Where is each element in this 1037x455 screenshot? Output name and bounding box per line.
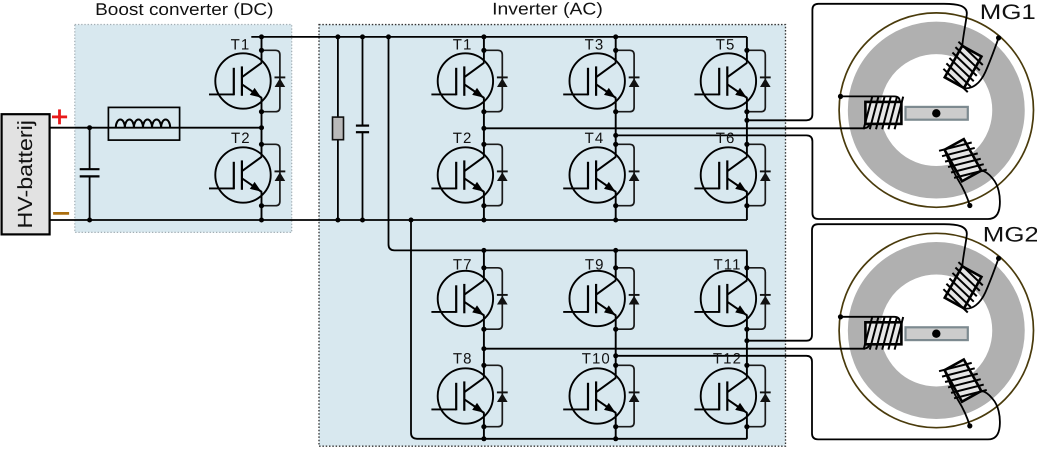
motor-generator MG2: [838, 233, 1034, 428]
svg-text:HV-batterij: HV-batterij: [14, 120, 37, 229]
transistor T2 (boost IGBT): [209, 142, 285, 209]
junction positive rail at T9 leg: [613, 248, 618, 253]
inductor L1: [108, 107, 179, 140]
svg-text:T1: T1: [453, 37, 473, 54]
junction DC- bus at C2: [360, 218, 365, 223]
wire T1 emitter to T2 collector (phase node U1): [483, 112, 485, 145]
junction phase W1 tap: [744, 118, 749, 123]
junction DC- bus at R1: [335, 218, 340, 223]
wire T6 emitter to DC- bus: [746, 206, 748, 220]
resistor R1 DC-link: [333, 117, 344, 140]
svg-text:T9: T9: [585, 257, 605, 274]
transistor T1 (boost IGBT): [209, 48, 285, 115]
junction phase V1 tap: [613, 133, 618, 138]
motor-generator MG1: [838, 13, 1034, 208]
svg-text:T1: T1: [231, 37, 251, 54]
junction DC- bus at boost T2 leg: [259, 218, 264, 223]
battery negative terminal -: [53, 212, 69, 215]
junction phase V2 tap: [613, 353, 618, 358]
svg-text:T2: T2: [453, 130, 473, 147]
junction DC+ bus at T3 leg: [613, 34, 618, 39]
inverter enclosure box: [319, 25, 786, 447]
svg-text:T11: T11: [714, 257, 742, 274]
transistor T6 (inverter IGBT): [694, 142, 770, 209]
junction phase W2 tap: [744, 338, 749, 343]
transistor T5 (inverter IGBT): [694, 48, 770, 115]
wire T2 emitter to DC- bus: [483, 206, 485, 220]
junction DC+ bus at T1 leg: [481, 34, 486, 39]
capacitor C2 DC-link: [356, 126, 369, 133]
transistor T9 (inverter IGBT): [563, 265, 639, 332]
wire T1 collector to DC+ bus: [483, 37, 485, 50]
svg-text:MG1: MG1: [980, 1, 1036, 24]
wire battery positive to inductor to boost midpoint node: [50, 127, 262, 129]
wire boost T1 collector to DC+ bus: [261, 37, 263, 50]
wire boosted DC+ bus T1 leg to T5 leg: [251, 36, 747, 38]
wire T4 emitter to DC- bus: [615, 206, 617, 220]
junction phase U1 tap: [481, 126, 486, 131]
transistor T4 (inverter IGBT): [563, 142, 639, 209]
junction phase U2 tap: [481, 346, 486, 351]
wire T10 emitter to negative rail: [615, 427, 617, 439]
wire T11 collector to positive rail: [746, 250, 748, 267]
svg-text:T6: T6: [716, 130, 736, 147]
wire T7 emitter to T8 collector (phase node U2): [483, 329, 485, 365]
wire boost T1 emitter to T2 collector (midpoint node): [261, 112, 263, 145]
junction DC- bus at T2 leg: [481, 218, 486, 223]
junction DC+ bus at R1: [335, 34, 340, 39]
wire phase V1 node T3/T4 to MG1 lower coil: [616, 135, 1000, 219]
transistor T3 (inverter IGBT): [563, 48, 639, 115]
wire boost T2 emitter to DC- bus: [261, 206, 263, 220]
wire capacitor C1 bottom lead: [89, 176, 91, 220]
wire capacitor C2 bottom lead: [362, 132, 364, 220]
svg-text:T8: T8: [453, 351, 473, 368]
junction boost midpoint node: [259, 125, 264, 130]
wire T9 collector to positive rail: [615, 250, 617, 267]
wire DC- feed to lower bridge negative rail: [411, 220, 747, 439]
wire T3 collector to DC+ bus: [615, 37, 617, 50]
wire T12 emitter to negative rail: [746, 427, 748, 439]
junction DC+ bus at lower-bridge feed: [386, 34, 391, 39]
wire capacitor C2 top lead: [362, 37, 364, 126]
wire capacitor C1 top lead: [89, 128, 91, 170]
svg-text:Boost converter (DC): Boost converter (DC): [95, 0, 273, 19]
transistor T1 (inverter IGBT): [431, 48, 507, 115]
junction DC- bus at T4 leg: [613, 218, 618, 223]
wire negative bus battery to T6 leg: [50, 219, 747, 221]
junction negative rail at T10 leg: [613, 436, 618, 441]
wire T5 emitter to T6 collector (phase node W1): [746, 112, 748, 145]
svg-text:T3: T3: [585, 37, 605, 54]
wire phase U1 node T1/T2 to MG1 left coil: [484, 123, 870, 128]
transistor T2 (inverter IGBT): [431, 142, 507, 209]
wire T5 collector to DC+ bus: [746, 37, 748, 50]
wire resistor R1 leads DC+ bus to DC- bus: [337, 37, 339, 220]
capacitor C1: [80, 169, 100, 176]
svg-text:T2: T2: [231, 130, 251, 147]
wire T7 collector to positive rail: [483, 250, 485, 267]
svg-text:T10: T10: [582, 351, 611, 368]
junction DC+ bus at boost T1 leg: [259, 34, 264, 39]
boost converter enclosure box: [75, 25, 292, 233]
junction positive rail at T7 leg: [481, 248, 486, 253]
wire phase U2 node T7/T8 to MG2 left coil: [484, 343, 870, 348]
wire DC+ feed to lower bridge positive rail: [389, 37, 747, 251]
wire phase V2 node T9/T10 to MG2 lower coil: [616, 356, 1000, 440]
wire T9 emitter to T10 collector (phase node V2): [615, 329, 617, 365]
svg-text:T4: T4: [585, 130, 605, 147]
wire T8 emitter to negative rail: [483, 427, 485, 439]
battery BT1 HV-batterij: [2, 114, 50, 234]
svg-text:MG2: MG2: [983, 224, 1037, 247]
wire T3 emitter to T4 collector (phase node V1): [615, 112, 617, 145]
junction DC+ bus at C2: [360, 34, 365, 39]
transistor T10 (inverter IGBT): [563, 363, 639, 430]
wire T11 emitter to T12 collector (phase node W2): [746, 329, 748, 365]
junction battery positive at C1: [87, 125, 92, 130]
svg-text:T7: T7: [453, 257, 473, 274]
junction DC- bus at lower-bridge feed: [409, 218, 414, 223]
wire phase W1 node T5/T6 to MG1 upper coil: [747, 4, 967, 121]
transistor T11 (inverter IGBT): [694, 265, 770, 332]
svg-text:T12: T12: [713, 351, 742, 368]
transistor T12 (inverter IGBT): [694, 363, 770, 430]
transistor T8 (inverter IGBT): [431, 363, 507, 430]
svg-text:Inverter (AC): Inverter (AC): [492, 0, 603, 19]
svg-text:T5: T5: [716, 37, 736, 54]
wire phase W2 node T11/T12 to MG2 upper coil: [747, 224, 967, 341]
junction DC- bus at C1: [87, 218, 92, 223]
transistor T7 (inverter IGBT): [431, 265, 507, 332]
junction negative rail at T8 leg: [481, 436, 486, 441]
battery positive terminal +: [52, 109, 67, 124]
